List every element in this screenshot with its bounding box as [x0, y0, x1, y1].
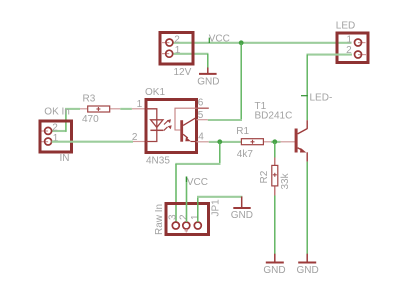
- label OK1: [145, 87, 165, 98]
- wire LED pin2 to T1 collector (net LED-): [307, 55, 353, 121]
- wire JP1 pin1 to GND: [197, 196, 242, 222]
- svg-text:1: 1: [137, 99, 143, 110]
- wire 12V pin1 to GND: [173, 54, 209, 68]
- pin number 6 (OK1): [198, 98, 204, 109]
- connector JP1: [166, 204, 209, 235]
- pin number 1 (12V): [175, 45, 181, 56]
- svg-text:GND: GND: [297, 265, 319, 276]
- label R2 (rotated): [259, 170, 270, 183]
- pin stub OK1 pin4: [197, 141, 209, 143]
- wire IN pin2 up to R3 (net OK In): [52, 109, 80, 132]
- svg-text:Raw In: Raw In: [154, 204, 165, 235]
- junction node OK1 pin4 / JP1 pin3: [217, 139, 222, 144]
- transistor T1: [295, 120, 308, 161]
- value 4k7: [237, 149, 254, 160]
- svg-text:2: 2: [52, 123, 58, 134]
- svg-text:VCC: VCC: [187, 177, 208, 188]
- svg-text:GND: GND: [263, 265, 285, 276]
- wire R1 to T1 base: [271, 141, 281, 143]
- svg-text:1: 1: [190, 214, 201, 220]
- value 4N35: [146, 155, 170, 166]
- svg-text:5: 5: [198, 110, 204, 121]
- pin number 2 (IN): [52, 123, 58, 134]
- label LED: [336, 21, 355, 32]
- resistor R2: [272, 158, 278, 196]
- wire R3 to OK1 pin1: [120, 108, 132, 110]
- svg-text:OK1: OK1: [145, 87, 165, 98]
- value 33k (rotated): [280, 172, 291, 189]
- pin number 4 (OK1): [198, 131, 204, 142]
- pin number 1 (IN): [53, 133, 59, 144]
- svg-text:GND: GND: [197, 76, 219, 87]
- svg-text:470: 470: [82, 114, 99, 125]
- label R1: [236, 126, 249, 137]
- svg-text:2: 2: [179, 214, 190, 220]
- svg-text:LED-: LED-: [310, 92, 333, 103]
- OK1 phototransistor: [175, 108, 197, 142]
- label JP1 (rotated): [211, 199, 222, 217]
- label Raw In (rotated): [154, 204, 165, 235]
- svg-text:BD241C: BD241C: [255, 110, 293, 121]
- ground GND (T1): [298, 254, 316, 263]
- net label LED-: [301, 92, 332, 103]
- svg-text:4k7: 4k7: [237, 149, 254, 160]
- resistor R1: [241, 139, 271, 145]
- label R3: [83, 93, 96, 104]
- svg-text:IN: IN: [60, 153, 70, 164]
- svg-text:LED: LED: [336, 21, 355, 32]
- wire IN pin1 to OK1 pin2: [52, 141, 133, 143]
- wire junction to JP1 pin3: [175, 142, 220, 222]
- svg-text:R1: R1: [236, 126, 249, 137]
- pin stub T1 base: [281, 141, 295, 143]
- pin stub OK1 pin6: [197, 107, 209, 109]
- ground GND (R2): [266, 254, 284, 263]
- label T1: [255, 101, 267, 112]
- svg-text:3: 3: [167, 214, 178, 220]
- svg-text:12V: 12V: [174, 67, 192, 78]
- label GND (T1): [297, 265, 319, 276]
- value 470: [82, 114, 99, 125]
- svg-text:OK In: OK In: [44, 107, 70, 118]
- label GND (JP1): [231, 210, 253, 221]
- ground GND (JP1): [233, 197, 250, 209]
- pin number 1 (LED): [347, 34, 353, 45]
- junction node T1 base / R2: [272, 139, 277, 144]
- wire VCC rail from 12V pin2 to LED pin1: [173, 42, 352, 44]
- svg-text:4: 4: [198, 131, 204, 142]
- wire OK1 pin4 to R1: [209, 141, 241, 143]
- net label VCC (JP1): [187, 177, 208, 188]
- svg-text:R2: R2: [259, 170, 270, 183]
- resistor R3: [80, 106, 120, 112]
- svg-text:4N35: 4N35: [146, 155, 170, 166]
- pin number 2 (JP1, rotated): [179, 214, 190, 220]
- junction VCC node: [239, 40, 244, 45]
- connector 12V: [160, 33, 193, 65]
- pin number 2 (LED): [346, 45, 352, 56]
- svg-text:33k: 33k: [280, 172, 291, 189]
- svg-text:R3: R3: [83, 93, 96, 104]
- svg-text:1: 1: [175, 45, 181, 56]
- pin number 3 (JP1, rotated): [167, 214, 178, 220]
- connector IN: [40, 121, 72, 152]
- svg-text:1: 1: [347, 34, 353, 45]
- net label OK In: [44, 107, 70, 118]
- value BD241C: [255, 110, 293, 121]
- supply VCC at JP1 pin2: [186, 177, 188, 223]
- net label VCC (top): [209, 34, 230, 45]
- pin number 5 (OK1): [198, 110, 204, 121]
- OK1 light arrows: [164, 119, 172, 130]
- connector LED: [337, 33, 368, 63]
- label GND (R2): [263, 265, 285, 276]
- label IN: [60, 153, 70, 164]
- pin stub OK1 pin5: [197, 119, 208, 121]
- pin stub OK1 pin2: [133, 141, 145, 143]
- value label 12V: [174, 67, 192, 78]
- svg-text:GND: GND: [231, 210, 253, 221]
- pin number 1 (OK1): [137, 99, 143, 110]
- wire T1 emitter to GND: [306, 162, 308, 254]
- svg-text:6: 6: [198, 98, 204, 109]
- pin number 2 (OK1): [132, 132, 138, 143]
- svg-text:2: 2: [132, 132, 138, 143]
- svg-text:VCC: VCC: [209, 34, 230, 45]
- svg-text:JP1: JP1: [211, 199, 222, 217]
- pin number 1 (JP1, rotated): [190, 214, 201, 220]
- optocoupler OK1 box: [146, 100, 197, 153]
- OK1 internal LED: [146, 109, 163, 142]
- wire R2 to GND: [274, 196, 276, 255]
- pin stub OK1 pin1: [132, 108, 145, 110]
- label GND (12V): [197, 76, 219, 87]
- wire junction to R2: [274, 142, 276, 158]
- wire VCC node to OK1 pin5 (collector): [208, 43, 242, 120]
- pin number 2 (12V): [174, 35, 180, 46]
- ground GND (12V): [199, 68, 217, 74]
- svg-text:2: 2: [174, 35, 180, 46]
